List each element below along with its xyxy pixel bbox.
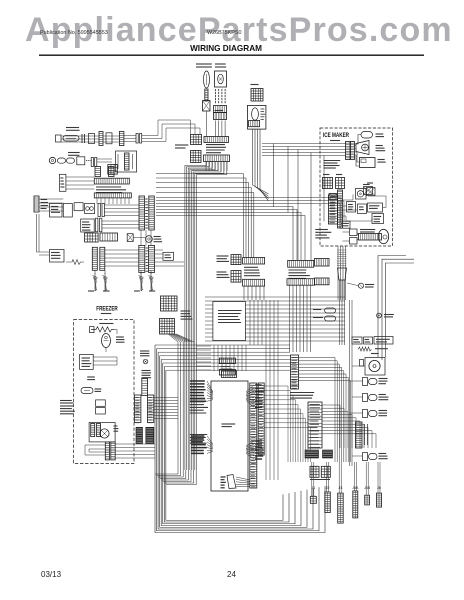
connector strip J3 (338, 493, 344, 523)
row1 switch box (56, 135, 62, 142)
freezer control housing strip (142, 379, 148, 396)
freezer compartment dashed box (74, 320, 134, 464)
svg-text:J1: J1 (311, 486, 315, 490)
freezer thermistor label (60, 400, 72, 402)
water valve X box (367, 188, 376, 196)
ice maker bundle below box (337, 246, 339, 300)
drain heater capsule (363, 453, 368, 461)
dispenser control strip (328, 195, 337, 224)
main harness waffle lower (160, 319, 175, 335)
vertical pair right column (349, 300, 351, 466)
adaptive defrost control box (80, 354, 94, 369)
center stack A bar lower (243, 279, 265, 286)
center stack A text rows (244, 266, 258, 268)
wires strip to sensor box (355, 152, 360, 162)
svg-text:FREEZER: FREEZER (96, 306, 118, 313)
ground fan bundle 4 (149, 276, 154, 278)
light switch inner plugs (125, 153, 130, 170)
water tube connector X-box (203, 101, 211, 112)
row2 box (77, 157, 85, 165)
freezer relay boxes (96, 400, 106, 406)
bus upper lines into stack A (156, 174, 243, 258)
row1 connector pair (136, 134, 138, 144)
heater block right of stack B lower (315, 278, 330, 285)
freezer housing strip A (134, 395, 141, 423)
label evap cover ground (87, 376, 95, 378)
main board J15 trapezoid (227, 475, 236, 489)
small waffle pair below (310, 466, 319, 477)
label run capacitor (375, 348, 388, 350)
capsule connector right upper (325, 308, 336, 313)
line cord ground circle (377, 313, 382, 318)
label ice maker compartment (330, 140, 340, 142)
lamp holder strip A (95, 167, 101, 177)
dark connector block B (146, 427, 154, 443)
label line cord ground (384, 314, 394, 316)
wire water tank down (206, 111, 208, 137)
svg-text:J6: J6 (377, 486, 381, 490)
interchange horizontal lines (205, 296, 345, 298)
heater block right of stack B upper (315, 259, 330, 267)
solenoid plug pair left (92, 247, 97, 270)
compressor relay box (364, 337, 373, 344)
wire bundle to ice maker (262, 143, 346, 145)
harness trapezoid connector (338, 268, 347, 280)
fill tube heater label (360, 229, 375, 231)
damper motor rotor ellipse (218, 74, 224, 84)
main board left pin labels upper (190, 380, 205, 382)
control harness bar lower (94, 193, 131, 198)
connector strip J4A (353, 491, 358, 518)
door switch wires (66, 176, 94, 178)
label room temp connectors (290, 392, 314, 394)
condenser fan motor box (365, 358, 385, 376)
label air duct connector (175, 144, 188, 146)
main board left pin labels lower (191, 435, 204, 437)
label water tank connector (196, 63, 212, 65)
wire L to compressor 2 (382, 259, 414, 360)
bin thermistor capsule (361, 132, 373, 139)
label bin thermistor (376, 133, 384, 135)
header rule line (39, 54, 424, 56)
labels left of waffles (217, 255, 229, 257)
bus line to dispenser strip 1 (156, 197, 328, 199)
label row2 lamp (68, 152, 80, 154)
door switch box left (59, 174, 66, 191)
row1 wires rising to damper group (142, 120, 191, 136)
ground lug symbol (143, 359, 148, 364)
label dispenser micro (367, 182, 373, 184)
label freezer lamp (95, 388, 102, 390)
control housing pin strip (308, 402, 322, 448)
defrost thermostat ellipse (102, 334, 111, 348)
feed drop wire 3 (310, 153, 312, 261)
connector strip J1 (310, 496, 316, 503)
main board right strip A (250, 383, 257, 488)
light assembly grid connector (108, 165, 118, 175)
bus line to dispenser strip 2 (156, 200, 328, 202)
defrost heater resistor (91, 327, 114, 332)
wires ice maker interior (343, 195, 354, 201)
main board right fan upper (246, 385, 254, 392)
freezer wires right out of box (115, 443, 155, 445)
wire straps label (140, 350, 149, 352)
wire strip to thermistor (355, 135, 361, 145)
control harness bar upper (94, 178, 129, 184)
row1 tall plug A (99, 132, 103, 146)
fill tube junction boxes (350, 229, 358, 236)
solenoid plug pin text (146, 247, 148, 249)
evap fan plug bars (91, 424, 95, 437)
row2 capsules (58, 158, 66, 163)
water filter wire band down (252, 129, 254, 182)
label row1 selector (66, 127, 79, 129)
tall strip below interchange (291, 355, 299, 389)
water tank capsule (204, 71, 210, 88)
damper connector block lower (215, 110, 223, 112)
power line verticals (36, 214, 38, 252)
connector strip J2 (325, 492, 331, 513)
water tube micro connector (329, 194, 337, 200)
water filter housing box (248, 105, 266, 129)
capsule connector right lower (325, 316, 336, 321)
control harness text rows (96, 186, 121, 188)
main board top connector block (222, 371, 237, 378)
damper wires jog left into main bundle (185, 162, 207, 471)
shutoff switch box (368, 203, 383, 212)
solenoid wires mid (105, 249, 139, 251)
strip fan wires to right column (299, 358, 336, 463)
label water valve (363, 184, 370, 186)
main board J15 pin text (221, 476, 226, 478)
light switch assembly box (116, 151, 137, 172)
row1 tall plug B (119, 132, 124, 146)
row1 wires (61, 135, 99, 137)
water tank lead strip (205, 89, 208, 101)
wires between plug pairs (140, 230, 142, 245)
svg-text:J4A: J4A (352, 486, 359, 490)
damper harness pin text rows (206, 144, 225, 146)
row E1 wires to plug (104, 204, 139, 206)
freezer loop wires left (85, 445, 105, 455)
ice maker lower connector strip (338, 190, 343, 228)
wires from pin strip right (322, 405, 340, 448)
feed drop wire 4 (323, 156, 325, 222)
interchange verticals right of main board (265, 345, 267, 480)
bus lower lines into stack B (156, 207, 293, 261)
label green 4 (149, 290, 155, 292)
wires right column (352, 365, 365, 367)
wires fill tube (343, 231, 350, 233)
label main board (222, 423, 236, 425)
row E1 component boxes (63, 204, 72, 218)
water filter text rows (261, 108, 265, 110)
label green 3 (134, 290, 140, 292)
main board right fan lower (246, 441, 254, 446)
pressure switch box (374, 337, 393, 345)
defrost heater terminal box (90, 327, 95, 333)
label harness circle (365, 284, 374, 286)
wires strip to motor (355, 145, 356, 147)
svg-text:J2: J2 (326, 486, 330, 490)
interchange verticals down (249, 300, 251, 345)
freezer lamp capsule (81, 388, 93, 394)
system diagram box (163, 252, 174, 260)
interchange verticals into main board top (213, 345, 215, 371)
main board right pin labels upper (255, 384, 262, 386)
wire L to compressor 1 (378, 256, 406, 358)
compressor relay capsule 3 (363, 410, 368, 418)
ice maker aux box (372, 214, 384, 224)
svg-text:Publication No. 5995545553: Publication No. 5995545553 (40, 30, 108, 36)
grid connector front right (336, 178, 345, 189)
label water filter connector (251, 84, 259, 86)
dice cube switch grid (85, 233, 99, 242)
wires stack A down (243, 286, 245, 300)
label ice level (378, 159, 385, 161)
row1 contact bars (81, 134, 83, 143)
grid connector front left (323, 178, 333, 189)
water filter connector bar (249, 121, 260, 127)
svg-text:J3: J3 (339, 486, 343, 490)
row E2 wires (102, 220, 139, 222)
bundle bends into loops (155, 470, 178, 474)
wire heater to thermostat (114, 330, 117, 335)
label cond fan (371, 353, 379, 355)
row1 box2 (89, 134, 95, 144)
feed drop wire 5 (287, 147, 289, 213)
damper connector block hatched (214, 106, 227, 113)
dispenser micro connector (364, 187, 373, 195)
freezer strip wires right (154, 397, 178, 399)
center stack left waffle upper (231, 255, 241, 265)
dispenser strip right stubs (337, 198, 341, 221)
vertical text right of strip (364, 424, 366, 445)
feed drop wire 1 (272, 144, 274, 208)
plug pair pin text (145, 198, 147, 200)
row1 capsule lamp (63, 136, 79, 142)
row2 wires right (97, 158, 112, 160)
center stack A bar upper (243, 258, 265, 265)
row E3 X-box (127, 234, 133, 242)
right column hatched strip (356, 422, 363, 448)
label green 1 (88, 290, 94, 292)
damper harness bar upper (204, 137, 229, 143)
label freezer control housing (142, 370, 151, 372)
ice maker inlet connector strip (346, 142, 351, 160)
water tube heater circle (146, 236, 153, 243)
run capacitor coil (358, 347, 372, 351)
damper motor box (215, 71, 227, 87)
solenoid resistor (66, 260, 84, 265)
ice maker motor trapezoid (356, 141, 369, 155)
water filter band bend right (253, 182, 269, 194)
label defrost thermostat (116, 336, 124, 338)
fill tube heater bar (359, 234, 382, 241)
compressor relay capsule 1 (363, 378, 368, 386)
main board J15 fan (236, 477, 250, 480)
label water solenoid valve (50, 250, 65, 263)
ice maker motor circle (362, 144, 369, 151)
air duct grid connector lower (191, 151, 202, 163)
main board right strip B (258, 383, 264, 455)
fan drop wires (94, 271, 96, 275)
damper pin dash columns (215, 89, 217, 91)
compressor overload box (352, 337, 362, 344)
bundle continues down (339, 280, 341, 345)
center stack B text rows (289, 269, 307, 271)
condenser fan motor circle (369, 360, 380, 371)
ice maker compartment dashed box (320, 128, 393, 246)
main board right pin labels lower (255, 440, 262, 442)
bus line to aux connector (156, 204, 340, 222)
label freezer compartment (101, 313, 111, 315)
dark block pair below strip (305, 450, 319, 458)
ground fan bundle 1 (93, 276, 98, 278)
ice maker pin text list (330, 193, 336, 195)
label pins above grids (323, 174, 329, 176)
compressor relay capsule 2 (363, 394, 368, 402)
bottom nested loop wires (155, 345, 325, 533)
fan into main board J2 (207, 381, 213, 392)
ice level sensor box (360, 158, 376, 168)
wires bars down (96, 198, 98, 204)
mini stack bottom left (219, 358, 235, 364)
label neutral 2 (103, 290, 110, 292)
label damper motor (215, 63, 226, 65)
wire to harness circle (347, 283, 358, 286)
freezer lower plug pair (105, 442, 109, 460)
label ice water dispenser (50, 204, 63, 218)
label evap fan (114, 425, 118, 427)
connector strip J4B (365, 495, 370, 505)
label power cord (41, 199, 48, 201)
row2 lamp circle (49, 157, 55, 163)
main harness waffle upper (161, 296, 178, 311)
labels above J strips (310, 479, 330, 481)
wires adc right (93, 356, 117, 358)
label shown at rear block (315, 229, 328, 231)
svg-text:W26B75KPS0: W26B75KPS0 (207, 30, 241, 36)
row E3 crossed bar (100, 233, 118, 241)
water filter grid connector (251, 89, 263, 102)
interchange horizontal lines lower (155, 344, 290, 346)
ice maker thermostat box (358, 204, 367, 214)
fan into main board J10 (207, 436, 213, 444)
fresh food connector text box (213, 302, 246, 341)
svg-text:ICE MAKER: ICE MAKER (323, 132, 349, 139)
wires damper to bar (215, 121, 217, 137)
freezer temp switch text box (60, 405, 73, 407)
mold heater box (347, 202, 356, 213)
wires stack B down (289, 285, 291, 352)
feed drop wire 2 (297, 150, 299, 261)
wires bar to below (205, 162, 207, 172)
svg-text:J4B: J4B (364, 486, 371, 490)
fill tube heater ellipse (378, 229, 388, 243)
water filter cartridge ellipse (252, 108, 259, 120)
row E3 wire to heater circle (133, 237, 145, 239)
fan from waffle to bundle (168, 334, 178, 342)
svg-text:WIRING DIAGRAM: WIRING DIAGRAM (190, 44, 262, 53)
solenoid plug pair right (139, 245, 145, 272)
label right of waffles (181, 310, 191, 312)
center stack left waffle lower (231, 271, 241, 283)
evap fan motor circle (100, 429, 109, 438)
svg-text:03/13: 03/13 (41, 570, 62, 579)
svg-text:24: 24 (227, 570, 236, 579)
lamp holder strip B (109, 167, 115, 177)
power cord connector strip (34, 196, 39, 212)
center stack B bar lower (287, 279, 315, 286)
label defrost heater (99, 323, 113, 325)
label hold ice motor (376, 145, 383, 147)
label water tube heater (154, 236, 161, 238)
wires right of strip A (264, 386, 288, 462)
row E2 connector pair (96, 218, 98, 232)
center stack B bar upper (288, 260, 314, 267)
pin list text right A (189, 398, 205, 400)
row2 dashes (86, 160, 87, 162)
freezer housing strip B (147, 395, 153, 423)
ground fan bundle 3 (139, 276, 144, 278)
connector strip J6 (377, 493, 382, 507)
wires solenoid to bus (155, 249, 164, 251)
row1 box3 (106, 133, 112, 144)
air duct grid connector upper (191, 135, 202, 145)
cond fan notch block (360, 360, 364, 367)
water valve box with circle (356, 189, 367, 200)
text connectors at front of cabinet (324, 160, 341, 162)
fc light switch box (81, 219, 95, 232)
dark connector block A (136, 427, 143, 443)
damper harness bar lower (204, 155, 230, 162)
ground fan bundle 2 (103, 276, 108, 278)
evap fan assembly box (89, 423, 115, 442)
aux connector right (340, 221, 350, 228)
row E1 connector pair (98, 204, 100, 217)
feeder wires into J strips (311, 462, 313, 496)
wire L to compressor 3 (386, 263, 415, 357)
main vertical bundle extras (177, 342, 179, 470)
pin list text right B (189, 434, 207, 436)
bundle hatch marks (337, 249, 347, 251)
bundle horizontals to main board (196, 345, 211, 347)
harness circle mid (358, 283, 363, 288)
row2 connector pair (91, 158, 93, 167)
power cord wires right (39, 198, 63, 200)
main board box (211, 381, 248, 491)
tall plug pair right of E1 (139, 196, 145, 230)
